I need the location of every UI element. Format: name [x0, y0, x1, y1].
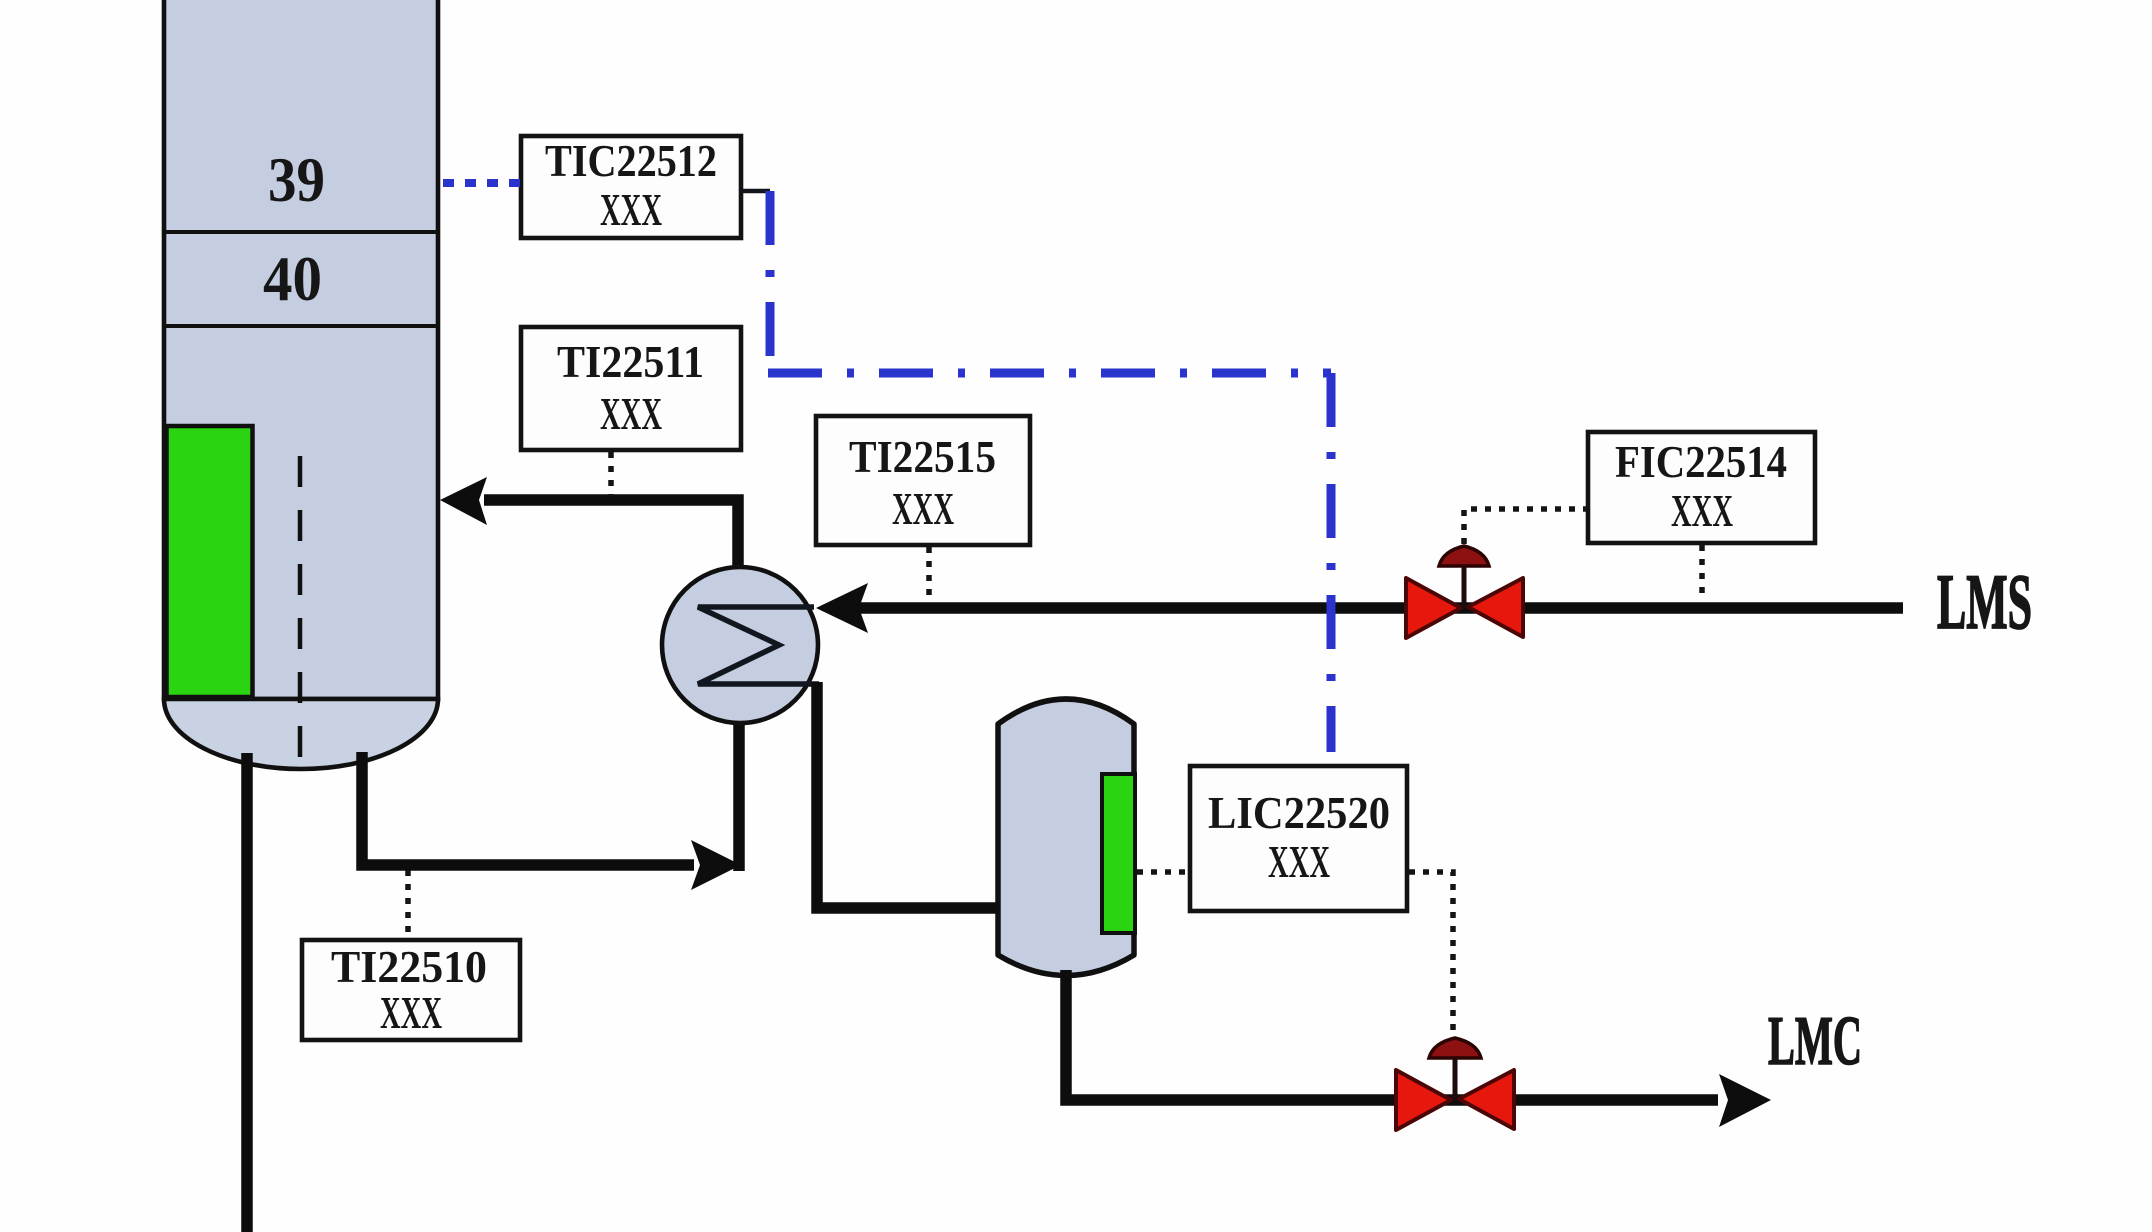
column T1 shell — [164, 0, 438, 699]
svg-text:XXX: XXX — [1671, 485, 1733, 536]
pipe: column bottoms right outlet to exchanger — [362, 752, 694, 865]
instrument box FIC22514 — [1588, 432, 1815, 543]
signal: TI22515 to LMS line (dotted) — [926, 547, 932, 601]
flash drum V1 — [998, 699, 1134, 976]
pipe: exchanger outlet to drum — [817, 682, 997, 908]
svg-text:XXX: XXX — [600, 388, 662, 439]
arrow into exchanger bottom pipe — [691, 840, 741, 890]
svg-text:TI22511: TI22511 — [557, 336, 704, 387]
column centre dashed line — [298, 456, 303, 766]
LMS supply line — [858, 602, 1903, 614]
svg-text:XXX: XXX — [1268, 836, 1330, 887]
exchanger coil (sigma) — [698, 607, 819, 684]
signal: LMS valve to FIC22514 (dotted) — [1464, 509, 1586, 544]
signal: LIC22520 to LMC valve (dotted) — [1409, 872, 1453, 1034]
drum level indicator (green) — [1102, 774, 1135, 933]
valve FV stem — [1462, 565, 1467, 608]
column bottom dome — [164, 699, 438, 769]
pipe: exchanger bottom riser — [733, 716, 745, 871]
svg-text:FIC22514: FIC22514 — [1615, 436, 1787, 487]
connector TIC22512 output (black) — [741, 189, 770, 194]
tray line 40 — [164, 324, 438, 328]
arrow into column — [440, 477, 487, 525]
valve LV actuator dome — [1429, 1038, 1481, 1058]
svg-text:TI22510: TI22510 — [331, 941, 487, 992]
pipe: reflux return line to column — [484, 500, 738, 572]
arrow LMC outlet — [1719, 1074, 1771, 1127]
arrow LMS into exchanger — [816, 583, 868, 633]
svg-text:XXX: XXX — [380, 987, 442, 1038]
signal: drum level to LIC22520 (dotted) — [1137, 869, 1188, 875]
svg-text:XXX: XXX — [600, 184, 662, 235]
signal: TI22511 to reflux line (dotted) — [608, 452, 614, 496]
valve LV (LMC) body — [1396, 1070, 1451, 1130]
svg-text:40: 40 — [263, 244, 322, 314]
signal: TIC22512 down leg (blue dash-dot) — [766, 191, 775, 362]
instrument box TI22515 — [816, 416, 1030, 545]
svg-text:39: 39 — [268, 145, 325, 215]
valve LV stem — [1453, 1056, 1458, 1100]
instrument box TI22511 — [521, 327, 741, 450]
svg-text:LMS: LMS — [1937, 558, 2032, 645]
pipe: drum bottom outlet / LMC line — [1066, 970, 1718, 1100]
signal: cascade vertical run to LIC (blue dash-dot) — [1327, 373, 1336, 752]
tray line 39 — [164, 230, 438, 234]
instrument box TIC22512 — [521, 136, 741, 238]
valve FV (LMS) body — [1406, 578, 1461, 638]
svg-text:LIC22520: LIC22520 — [1208, 787, 1390, 838]
svg-text:XXX: XXX — [892, 483, 954, 534]
pipe: column bottoms left outlet — [241, 753, 253, 1232]
column level indicator (green) — [167, 426, 253, 697]
signal: FIC22514 to LMS line (dotted) — [1699, 545, 1705, 601]
svg-text:TI22515: TI22515 — [849, 431, 996, 482]
instrument box LIC22520 — [1190, 766, 1407, 911]
valve FV actuator dome — [1439, 546, 1489, 566]
svg-text:LMC: LMC — [1768, 1003, 1862, 1080]
signal: bottoms line to TI22510 (dotted) — [405, 870, 411, 938]
signal: cascade horizontal run (blue dash-dot) — [768, 369, 1331, 378]
signal: column tray 39 to TIC22512 (blue dashed) — [443, 179, 520, 187]
svg-text:TIC22512: TIC22512 — [545, 135, 717, 186]
instrument box TI22510 — [302, 940, 520, 1040]
heat exchanger E1 — [662, 567, 818, 723]
